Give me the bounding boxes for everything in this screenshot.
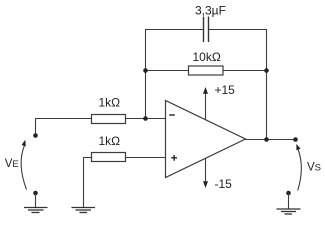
wire ground drop from R3	[83, 157, 85, 207]
resistor R1 1kΩ body	[92, 115, 126, 124]
svg-text:+15: +15	[215, 83, 236, 97]
ground under R3	[72, 208, 96, 213]
wire inverting input horizontal	[35, 118, 166, 120]
resistor R3 1kΩ body	[92, 153, 126, 162]
wire right feedback vertical	[266, 29, 268, 140]
node input terminal bottom	[33, 191, 38, 196]
resistor R2 10kΩ body	[189, 66, 224, 75]
svg-text:1kΩ: 1kΩ	[99, 134, 121, 148]
wire input terminal vertical	[35, 119, 37, 136]
node output terminal	[293, 137, 298, 142]
capacitor C1 3,3µF plates	[204, 17, 209, 43]
wire output horizontal	[245, 139, 296, 141]
negative supply arrow (-15)	[205, 158, 207, 182]
svg-text:10kΩ: 10kΩ	[193, 50, 221, 64]
node feedback right junction	[264, 68, 269, 73]
wire output ground drop	[288, 193, 290, 209]
wire non-inverting input horizontal	[84, 157, 166, 159]
svg-text:-15: -15	[215, 177, 233, 191]
op-amp minus input sign	[169, 114, 175, 116]
ground under output terminal	[277, 209, 301, 214]
node input terminal top	[33, 133, 38, 138]
node output junction	[264, 137, 269, 142]
voltage arc VE	[21, 145, 26, 190]
voltage arc VS	[298, 149, 302, 191]
positive supply arrow (+15)	[205, 93, 207, 120]
wire top feedback left (to capacitor)	[146, 29, 204, 31]
op-amp plus input sign	[171, 155, 177, 161]
svg-text:3,3µF: 3,3µF	[195, 4, 226, 18]
node inverting input junction	[143, 116, 148, 121]
svg-text:VE: VE	[5, 158, 19, 170]
node output ground terminal	[286, 191, 291, 196]
wire top feedback right (from capacitor)	[209, 29, 267, 31]
node feedback left junction	[143, 68, 148, 73]
op-amp U1 triangle	[166, 101, 246, 178]
svg-text:VS: VS	[307, 162, 321, 174]
svg-text:1kΩ: 1kΩ	[99, 96, 121, 110]
wire input ground drop	[35, 193, 37, 207]
wire feedback resistor branch	[146, 70, 267, 72]
wire left feedback vertical	[145, 29, 147, 119]
ground under input terminal	[24, 208, 48, 213]
